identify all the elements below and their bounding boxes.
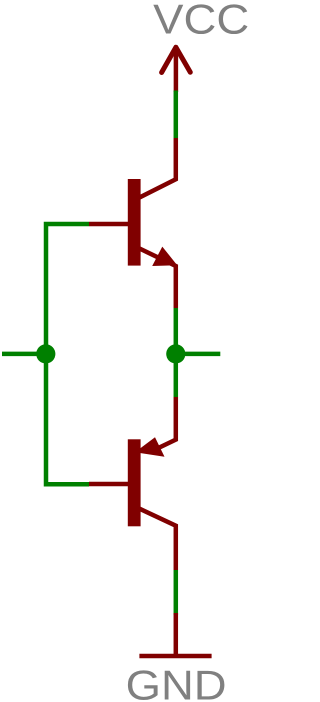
junction dot right (166, 344, 185, 363)
wire Q2 collector to ground (174, 570, 179, 615)
transistor Q1 (NPN) (89, 138, 177, 308)
svg-text:VCC: VCC (153, 0, 248, 43)
junction dot left (36, 344, 55, 363)
wire Q1 emitter to output node (174, 308, 179, 354)
wire input bus to Q2 base (46, 354, 89, 484)
wire input stub left (2, 352, 46, 357)
VCC power symbol (162, 47, 191, 92)
svg-text:GND: GND (126, 662, 227, 702)
wire VCC to Q1 collector (174, 91, 179, 139)
transistor Q2 (PNP) (89, 397, 176, 570)
wire output node to Q2 emitter (174, 354, 179, 397)
wire Q1 base to input bus (46, 224, 89, 354)
wire output stub right (176, 352, 221, 357)
ground symbol (139, 613, 211, 656)
